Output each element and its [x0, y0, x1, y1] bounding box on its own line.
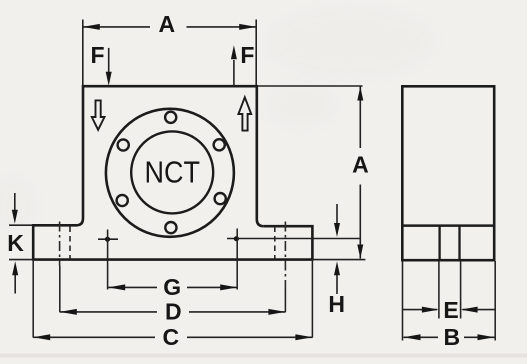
force arrow F left (down) — [108, 48, 110, 72]
dimension H: bottom arrow — [336, 275, 338, 294]
svg-text:F: F — [90, 42, 104, 68]
dimension E: right arrow — [463, 309, 497, 311]
dimension D: extension left — [59, 266, 61, 312]
dimension A top: right arrowhead — [239, 24, 256, 30]
bolt hole upper-left — [118, 139, 129, 150]
dimension A top: left arrowhead — [83, 24, 100, 30]
dimension K: bottom arrow — [14, 274, 16, 294]
force arrow F right (up) — [233, 60, 235, 86]
dimension K: top arrow — [14, 193, 16, 212]
dimension C: extension right — [311, 261, 313, 338]
dimension A right: up arrowhead — [357, 87, 363, 101]
dimension K: extension lines — [9, 224, 33, 226]
dimension B: extension lines — [402, 261, 404, 341]
center mark right + H reference arm — [227, 236, 360, 241]
bolt hole upper-right — [214, 139, 225, 150]
dimension B: right arrowhead — [478, 334, 495, 340]
svg-text:F: F — [240, 42, 254, 68]
svg-text:G: G — [163, 274, 181, 300]
centerline right (dash-dot) — [284, 222, 286, 291]
dimension G: left arrowhead — [108, 284, 125, 290]
dimension C: right arrowhead — [295, 334, 312, 340]
body outline — [77, 86, 264, 226]
dimension A right: top extension — [258, 85, 363, 87]
dimension A top: extension lines — [82, 20, 84, 86]
hidden hole line left (dashed) — [69, 227, 71, 259]
side view slot left line — [438, 226, 440, 261]
center mark left — [98, 237, 118, 242]
G extension right (through hole center) — [236, 229, 238, 290]
svg-text:NCT: NCT — [145, 155, 201, 190]
dimension A right: dimension line — [359, 87, 361, 149]
dimension B: dimension line — [404, 336, 439, 338]
svg-text:A: A — [158, 11, 175, 37]
dimension A right: bottom extension — [312, 259, 365, 261]
hollow up arrow — [238, 97, 251, 130]
bolt hole top — [165, 112, 176, 123]
hollow down arrow — [92, 100, 105, 129]
dimension A top: dimension line — [83, 26, 150, 28]
svg-text:C: C — [162, 324, 179, 350]
svg-text:K: K — [7, 230, 24, 256]
flange outer circle — [106, 109, 234, 237]
dimension A right: down arrowhead — [357, 245, 363, 259]
bolt hole lower-right — [215, 193, 226, 204]
svg-text:D: D — [165, 299, 182, 325]
dimension G: right arrowhead — [220, 284, 237, 290]
bolt hole lower-left — [117, 195, 128, 206]
dimension C: dimension line — [33, 336, 155, 338]
dimension B: left arrowhead — [404, 334, 421, 340]
centerline left (dash-dot) — [59, 222, 61, 267]
bottom scan band — [0, 354, 527, 358]
side view base top line — [402, 224, 494, 227]
dimension D: dimension line — [60, 311, 157, 313]
dimension C: extension left — [32, 261, 34, 338]
dimension G: dimension line — [108, 286, 157, 288]
hidden hole line right (dashed) — [274, 227, 276, 259]
side view outline — [402, 86, 494, 260]
flange inner circle — [131, 131, 213, 213]
svg-text:H: H — [328, 291, 345, 317]
svg-text:B: B — [443, 324, 460, 350]
svg-text:A: A — [352, 152, 369, 178]
dimension D: right arrowhead — [268, 309, 285, 315]
bolt hole bottom — [165, 222, 176, 233]
dimension D: extension right — [284, 290, 286, 312]
svg-text:E: E — [443, 297, 458, 323]
dimension E: left arrow — [403, 309, 437, 311]
dimension D: left arrowhead — [60, 309, 77, 315]
G extension left (through hole center) — [107, 230, 109, 290]
dimension H: top arrow — [336, 204, 338, 224]
side view slot right line — [458, 226, 460, 261]
dimension E: extension lines — [438, 261, 440, 319]
base plate outline — [33, 225, 312, 259]
dimension C: left arrowhead — [33, 334, 50, 340]
